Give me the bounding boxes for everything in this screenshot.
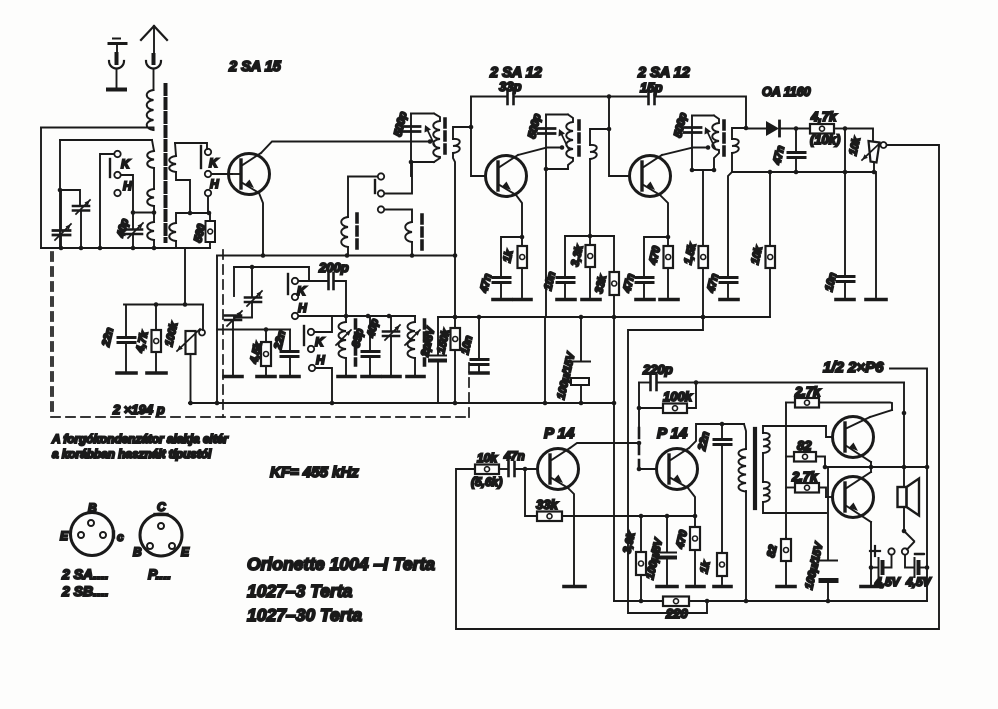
collector wire to T2 bbox=[518, 148, 562, 156]
resistor 2,7k (lower) bbox=[786, 483, 826, 497]
svg-text:1/2 2×P6: 1/2 2×P6 bbox=[823, 359, 884, 376]
resistor 150k bbox=[451, 315, 461, 403]
svg-text:22n: 22n bbox=[696, 430, 712, 452]
transistor Q2 (output) bbox=[833, 472, 874, 522]
resistor 2,7k (upper) bbox=[786, 398, 892, 410]
oscillator coupling coil 2 bbox=[405, 222, 412, 256]
Q2 collector up to mid rail bbox=[870, 467, 872, 472]
volume potentiometer 10k bbox=[862, 141, 887, 172]
ground bbox=[257, 375, 275, 379]
ground for detector rail bbox=[866, 172, 886, 300]
resistor 3,9k bbox=[636, 516, 646, 601]
svg-text:H: H bbox=[316, 353, 325, 367]
svg-text:2 SA 12: 2 SA 12 bbox=[489, 65, 542, 81]
svg-text:40p: 40p bbox=[365, 317, 381, 339]
svg-text:(10k): (10k) bbox=[810, 132, 840, 147]
svg-text:22n: 22n bbox=[100, 326, 116, 348]
ground bbox=[224, 375, 242, 379]
svg-text:33k: 33k bbox=[536, 497, 558, 512]
resistor 470 (emitter P14#2) bbox=[687, 516, 704, 587]
collector wire to T3 bbox=[662, 148, 708, 156]
svg-text:10k: 10k bbox=[477, 451, 498, 465]
svg-text:33p: 33p bbox=[350, 327, 366, 348]
svg-text:H: H bbox=[298, 301, 307, 315]
T2 secondary bbox=[588, 127, 612, 239]
minus sign bbox=[915, 553, 923, 555]
Q1 emitter to mid rail bbox=[870, 462, 872, 467]
svg-text:2,7k: 2,7k bbox=[791, 469, 818, 484]
svg-text:A forgókondenzátor alakja e: A forgókondenzátor alakja eltér bbox=[51, 432, 229, 446]
wire: bottom minus rail bbox=[614, 600, 927, 602]
AGC resistor 10k bbox=[766, 170, 776, 317]
svg-text:100μ/15V: 100μ/15V bbox=[803, 540, 826, 591]
svg-text:1k: 1k bbox=[698, 559, 713, 574]
svg-text:K: K bbox=[209, 156, 219, 170]
wire to volume pot bbox=[845, 129, 873, 141]
svg-text:2 SA....: 2 SA.... bbox=[61, 566, 109, 582]
svg-text:500p: 500p bbox=[672, 111, 689, 138]
svg-text:2,7k: 2,7k bbox=[794, 384, 821, 399]
transistor Q1 (output) bbox=[833, 417, 874, 463]
electrolytic 100u/15V (output) bbox=[820, 467, 837, 601]
svg-text:100k: 100k bbox=[163, 320, 180, 347]
svg-text:33p: 33p bbox=[499, 79, 521, 94]
oscillator coil 1 bbox=[336, 322, 351, 375]
speaker bbox=[898, 479, 920, 532]
svg-text:500p: 500p bbox=[526, 112, 543, 139]
svg-text:2 SA 15: 2 SA 15 bbox=[228, 59, 282, 75]
driver transformer bbox=[739, 424, 747, 601]
secondary winding 2 bbox=[763, 482, 826, 513]
trimmer capacitor (antenna) bbox=[73, 200, 90, 248]
svg-text:470: 470 bbox=[674, 528, 690, 550]
svg-text:4,5k: 4,5k bbox=[248, 340, 265, 365]
oscillator coupling coil 1 bbox=[341, 217, 348, 256]
resistor 10k (5,6k) input bbox=[475, 465, 507, 475]
base column Q2 bbox=[826, 496, 833, 498]
resistor 33k (P14#1 bias) bbox=[525, 469, 695, 521]
emitter wire down bbox=[259, 193, 263, 255]
switch K/H (oscillator tank) bbox=[288, 274, 298, 319]
on/off switch bbox=[888, 531, 914, 555]
base column Q1 bbox=[826, 426, 833, 437]
resistor 4,7k (10k) bbox=[810, 124, 845, 134]
band switch K/H (antenna) bbox=[100, 151, 133, 248]
resistor 100k (feedback) bbox=[637, 380, 699, 413]
wire: left edge of oscillator bbox=[216, 256, 218, 404]
wire bbox=[124, 248, 203, 305]
collector wire bbox=[570, 443, 639, 448]
emitter network 1k/47n bbox=[493, 195, 524, 300]
40p trimmer (antenna coil tap) bbox=[126, 210, 154, 248]
svg-text:4,7k: 4,7k bbox=[134, 329, 151, 354]
T1 secondary bbox=[453, 125, 474, 320]
svg-text:P....: P.... bbox=[148, 566, 171, 582]
svg-text:100μ/15V: 100μ/15V bbox=[555, 350, 578, 401]
svg-text:10k: 10k bbox=[749, 244, 765, 265]
wire: direct coupling (dashed) bbox=[638, 408, 640, 469]
svg-text:P 14: P 14 bbox=[657, 425, 688, 442]
secondary coil (on rod, base winding) bbox=[169, 143, 207, 213]
ground bbox=[117, 371, 136, 375]
svg-text:47n: 47n bbox=[503, 449, 525, 463]
svg-text:47n: 47n bbox=[478, 272, 494, 294]
ground bbox=[338, 375, 355, 379]
svg-text:10n: 10n bbox=[542, 270, 558, 291]
svg-text:a korábban használt típustó: a korábban használt típustól bbox=[52, 447, 212, 461]
capacitor 200p bbox=[299, 273, 346, 322]
Q1 collector to rail bbox=[870, 410, 892, 417]
transistor 2SA15 bbox=[229, 153, 270, 195]
svg-text:82: 82 bbox=[797, 438, 812, 453]
wire: T2 primary bottom down bbox=[545, 169, 547, 317]
ferrite core (dashed) bbox=[354, 320, 358, 365]
svg-text:220p: 220p bbox=[642, 362, 673, 377]
svg-text:1k: 1k bbox=[501, 248, 516, 263]
resistor 220 bbox=[663, 597, 689, 607]
wire: AGC top rail 33p/15p bbox=[471, 97, 746, 129]
wire: left box bbox=[41, 128, 210, 249]
capacitor 10n bbox=[471, 315, 488, 371]
resistor 82 (upper) bbox=[786, 452, 825, 467]
svg-text:220: 220 bbox=[665, 606, 688, 621]
T3 secondary bbox=[732, 126, 748, 172]
Q2 emitter down to battery bbox=[870, 522, 872, 567]
wire: AGC line down to base 2SA12#1 bbox=[471, 97, 485, 177]
capacitor 22n (emitter bypass) bbox=[281, 330, 298, 376]
capacitor 47n (input) bbox=[509, 462, 538, 476]
collector wire to first IF transformer bbox=[261, 142, 430, 154]
svg-text:15p: 15p bbox=[640, 80, 662, 95]
collector wire bbox=[689, 424, 744, 448]
wire to trimmer bbox=[60, 190, 80, 204]
resistor 4,5k bbox=[261, 330, 271, 376]
svg-text:OA 1160: OA 1160 bbox=[762, 85, 811, 99]
tuning gang capacitor section 1 bbox=[53, 190, 71, 248]
capacitor 15p bbox=[649, 89, 655, 104]
wire: box right edge bbox=[890, 369, 927, 602]
capacitor 47n (T3 secondary return) bbox=[720, 172, 738, 300]
svg-text:KF= 455 kHz: KF= 455 kHz bbox=[270, 464, 359, 481]
capacitor 47n (detector) bbox=[788, 129, 805, 173]
svg-text:10n: 10n bbox=[823, 271, 839, 292]
svg-text:1027–30 Terta: 1027–30 Terta bbox=[247, 605, 362, 625]
svg-text:47n: 47n bbox=[621, 272, 637, 294]
svg-text:Orionette 1004 –I Terta: Orionette 1004 –I Terta bbox=[247, 554, 435, 574]
svg-text:2 SA 12: 2 SA 12 bbox=[637, 65, 690, 81]
svg-text:500p: 500p bbox=[392, 110, 409, 137]
electrolytic 2u/8V bbox=[429, 317, 446, 403]
mid rail to speaker bbox=[825, 466, 927, 468]
resistor 470 bbox=[660, 237, 678, 300]
feedback 220p / 100k bbox=[639, 375, 904, 390]
wire: oscillator tank top bbox=[234, 267, 309, 281]
emitter network 470/47n bbox=[636, 195, 670, 300]
ground bbox=[281, 375, 299, 379]
T2 bias network 3.3k/10n/33k bbox=[557, 236, 614, 300]
svg-text:10k: 10k bbox=[847, 135, 863, 156]
svg-text:K: K bbox=[297, 284, 307, 298]
emitter to ground bbox=[564, 488, 585, 587]
svg-text:H: H bbox=[123, 179, 132, 193]
oscillator feedback winding (on rod) bbox=[154, 213, 210, 248]
node A bbox=[58, 188, 63, 193]
IF transformer T3 bbox=[684, 116, 719, 173]
wire: rail link bbox=[544, 317, 546, 403]
band switch K/H (oscillator base) bbox=[201, 146, 232, 211]
svg-text:E: E bbox=[181, 545, 190, 559]
svg-text:4,5V: 4,5V bbox=[874, 575, 901, 589]
svg-text:3,3k: 3,3k bbox=[569, 243, 586, 267]
secondary winding 1 bbox=[763, 426, 826, 482]
resistor 1,5k bbox=[699, 170, 709, 319]
wire: oscillator rail top bbox=[217, 255, 455, 257]
resistor 82 (bottom) bbox=[777, 538, 795, 587]
capacitor 22n bbox=[118, 305, 135, 372]
earphone jack symbol bbox=[108, 39, 126, 90]
main supply column bbox=[903, 383, 905, 488]
svg-text:K: K bbox=[315, 335, 325, 349]
wire: tank bottom line bbox=[299, 315, 416, 317]
resistor 560 bbox=[206, 213, 216, 248]
T3 core (dashed) bbox=[722, 121, 726, 158]
potentiometer 100k bbox=[177, 305, 205, 404]
antenna bbox=[141, 26, 167, 90]
svg-text:K: K bbox=[121, 157, 131, 171]
resistor 1k (22n return) bbox=[714, 553, 731, 587]
svg-text:c: c bbox=[117, 530, 124, 544]
battery 4,5V (left) bbox=[861, 546, 892, 587]
wire: minus rail bbox=[438, 316, 770, 318]
T2 core (dashed) bbox=[577, 121, 581, 158]
resistor 1k bbox=[514, 237, 531, 300]
gang mechanical link (dashed) bbox=[52, 252, 54, 417]
svg-text:P 14: P 14 bbox=[544, 425, 575, 442]
svg-text:H: H bbox=[210, 177, 219, 191]
svg-text:2 ×194 p: 2 ×194 p bbox=[112, 402, 165, 417]
switch K/H (padder) bbox=[304, 316, 332, 403]
svg-text:(5,6k): (5,6k) bbox=[471, 475, 502, 489]
capacitor 33p bbox=[362, 316, 379, 375]
wire: to base 2SA12#2 bbox=[609, 97, 629, 177]
oscillator coil 2 bbox=[405, 316, 420, 375]
battery 4,5V (right) bbox=[905, 554, 929, 577]
svg-text:22n: 22n bbox=[272, 329, 288, 351]
IF transformer T2 bbox=[538, 115, 573, 172]
node at 560 top bbox=[207, 211, 212, 216]
svg-text:33k: 33k bbox=[593, 273, 609, 294]
svg-text:100k: 100k bbox=[663, 389, 693, 404]
IF transformer T1 bbox=[403, 114, 440, 177]
capacitor 10n (AF filter) bbox=[836, 129, 854, 300]
electrolytic 100u/8V bbox=[657, 516, 677, 587]
wire: pot wiper to AF amp bbox=[456, 145, 939, 629]
ferrite rod (dashed) bbox=[164, 85, 168, 241]
ground bbox=[470, 371, 488, 375]
diode OA1160 bbox=[746, 121, 810, 136]
antenna tuned coil (primary on rod) bbox=[147, 140, 154, 248]
resistor 4,7k bbox=[152, 305, 162, 372]
pinout P bbox=[140, 514, 182, 556]
core bbox=[753, 429, 757, 508]
bias column bbox=[785, 403, 787, 539]
svg-text:10n: 10n bbox=[459, 334, 475, 355]
capacitor 33p bbox=[508, 89, 514, 104]
capacitor 22n (tone) bbox=[714, 424, 731, 553]
antenna coupling coil bbox=[41, 90, 154, 130]
resistor 3,3k bbox=[582, 236, 600, 300]
ground bbox=[362, 375, 380, 379]
svg-text:2 SB....: 2 SB.... bbox=[61, 583, 109, 599]
core (dashed) bbox=[420, 215, 424, 251]
svg-text:2μ/8V: 2μ/8V bbox=[419, 325, 438, 359]
oscillator coupling switch bbox=[348, 162, 412, 222]
svg-text:82: 82 bbox=[765, 544, 779, 559]
svg-text:470: 470 bbox=[647, 244, 663, 266]
ferrite core (dashed) bbox=[423, 320, 427, 365]
electrolytic 100u/15V bbox=[571, 317, 590, 403]
svg-text:B: B bbox=[88, 501, 97, 515]
svg-text:47n: 47n bbox=[705, 272, 721, 294]
svg-text:1027–3 Terta: 1027–3 Terta bbox=[247, 581, 353, 601]
bottom rail of oscillator bbox=[189, 402, 615, 404]
core (dashed) bbox=[355, 214, 359, 250]
trimmer 40p (oscillator) bbox=[383, 316, 400, 375]
resistor 33k bbox=[610, 236, 620, 601]
wire: detector ground rail bbox=[732, 171, 874, 173]
svg-text:47n: 47n bbox=[771, 144, 787, 166]
T1 core (dashed) bbox=[443, 119, 447, 156]
svg-text:B: B bbox=[133, 545, 142, 559]
wire: box left edge bbox=[628, 315, 709, 613]
pinout 2SA/2SB bbox=[71, 513, 114, 556]
svg-text:C: C bbox=[157, 500, 166, 514]
ground bbox=[147, 371, 166, 375]
oscillator trimmer pair bbox=[225, 267, 262, 375]
svg-text:1,5k: 1,5k bbox=[682, 241, 699, 265]
svg-text:200p: 200p bbox=[318, 260, 349, 275]
svg-text:4,7k: 4,7k bbox=[810, 109, 837, 124]
wire: 4.5k bias line bbox=[217, 329, 290, 331]
emitter wire bbox=[688, 488, 695, 516]
ground bbox=[407, 375, 424, 379]
svg-text:E: E bbox=[60, 529, 69, 543]
ground bbox=[383, 375, 400, 379]
